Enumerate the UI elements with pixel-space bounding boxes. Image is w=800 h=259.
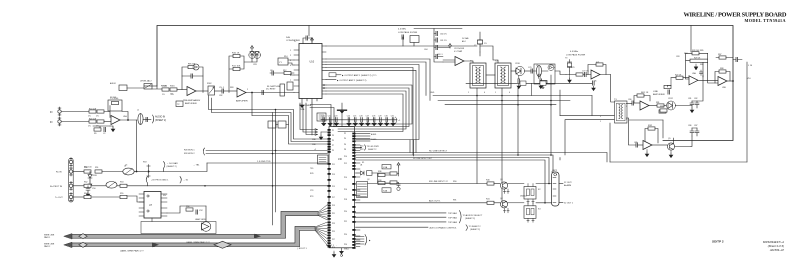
wire C4 taps — [182, 75, 203, 77]
wire bundle 3 — [326, 91, 406, 129]
bus2 left tip — [64, 242, 72, 247]
svg-text:(SHEET 2): (SHEET 2) — [167, 166, 177, 168]
wire x663 from T3 — [629, 119, 663, 121]
capacitor C39 vertical — [695, 101, 699, 108]
resistor R52 — [84, 184, 91, 187]
node dot at output — [127, 119, 129, 121]
capacitor C23 — [334, 115, 338, 126]
capacitor C62 — [436, 45, 438, 49]
svg-text:C2: C2 — [103, 133, 105, 135]
wire varactor to C33 — [525, 70, 531, 72]
circle around CR1 — [249, 52, 256, 59]
diode CR30 — [361, 171, 365, 175]
vertical drop x551 — [550, 75, 552, 155]
svg-text:PAIR 2: PAIR 2 — [44, 245, 51, 248]
svg-text:R81: R81 — [656, 102, 659, 104]
wire into K2 top — [528, 184, 533, 187]
resistor R40 — [487, 182, 494, 185]
wire bundle from IC to bus corner 1 — [326, 85, 412, 124]
feedback box R30 — [719, 70, 726, 73]
wire R26 stub — [661, 110, 663, 112]
J3 right pin blocks — [352, 133, 355, 249]
bracket TX LED — [365, 145, 366, 150]
bracket cap row end — [396, 117, 397, 124]
bracket +5V PROG right — [180, 177, 181, 184]
op-amp U5 — [591, 70, 600, 79]
svg-text:4: 4 — [290, 65, 291, 67]
capacitor C33 — [531, 69, 533, 73]
bus2 splice diamond A — [79, 242, 87, 247]
wire U7B out junction to border — [727, 80, 733, 82]
arrowheads into J3 — [315, 129, 318, 136]
inductor L1 — [138, 114, 143, 125]
wire: IC pin to 4.5MHz filter top run — [326, 45, 477, 47]
svg-text:P5: P5 — [332, 140, 334, 142]
transistor Q3 — [500, 182, 507, 189]
svg-text:NO LINE DETECT: NO LINE DETECT — [429, 151, 448, 153]
capacitor C5 — [222, 89, 224, 93]
wire R51 to L3 — [102, 171, 124, 173]
wire drop into connector left — [310, 105, 331, 127]
capacitor C29 — [378, 115, 382, 126]
svg-text:P7: P7 — [332, 145, 334, 147]
svg-text:.1: .1 — [385, 117, 387, 119]
wire border to power cluster — [690, 26, 692, 53]
wire to lower section vertical — [136, 120, 138, 172]
wire C35 — [518, 76, 520, 79]
wire IC bottom to connector — [311, 103, 313, 135]
wire T3 bottom drop to y162 — [609, 123, 611, 162]
wire row y153.5 — [206, 153, 328, 155]
labels on J3 right rows — [360, 146, 433, 167]
IC right pin stubs — [322, 46, 326, 94]
svg-text:TXP MA3: TXP MA3 — [448, 221, 458, 224]
circle SCR — [201, 222, 211, 232]
capacitor C43 vertical — [690, 128, 694, 136]
wire U12 out to SCR — [167, 206, 206, 213]
feedback loop wires — [686, 53, 708, 80]
svg-text:P21: P21 — [332, 213, 335, 215]
feedback resistor R29 wide — [690, 59, 708, 62]
resistor R5 — [97, 120, 104, 123]
svg-text:2: 2 — [290, 55, 291, 57]
wire gnd stub J3 — [321, 132, 328, 135]
svg-text:J4/P2: J4/P2 — [552, 170, 558, 172]
wire R5 to op-amp — [104, 121, 111, 123]
svg-text:L1: L1 — [137, 110, 139, 112]
wire bundle line 2 — [212, 98, 328, 142]
svg-text:4: 4 — [484, 92, 485, 94]
ground symbol bottom — [340, 252, 344, 255]
junction dot bundle — [275, 109, 277, 111]
capacitor C63 — [436, 54, 438, 58]
gnd parts below input — [664, 85, 671, 88]
rail wire y104.7 — [445, 104, 556, 106]
value labels IC left — [270, 41, 305, 111]
svg-text:LOW PASS FILTER: LOW PASS FILTER — [398, 31, 418, 34]
svg-text:R2 20K: R2 20K — [110, 97, 117, 99]
long secondary wire y83.3 — [466, 82, 592, 84]
wire feedback return horizontal y162 — [610, 161, 747, 163]
wire U1B out — [196, 90, 208, 92]
J3 inner pin labels column2 — [344, 133, 347, 246]
value labels T3 area — [600, 106, 627, 123]
svg-text:R52: R52 — [84, 182, 87, 184]
input source box left of attenuator — [119, 85, 127, 91]
svg-text:4.5 MHz: 4.5 MHz — [570, 51, 578, 53]
svg-text:R61 1K: R61 1K — [641, 92, 649, 94]
wire R55 to opto — [127, 196, 144, 202]
wire to vertical riser x703 — [692, 60, 703, 102]
wire C37 to U6 — [634, 102, 640, 104]
wire cap row rail — [321, 119, 397, 121]
value labels mid RF chain — [424, 43, 599, 94]
ground below bias — [111, 127, 115, 132]
svg-text:DC BAL: DC BAL — [462, 37, 469, 40]
svg-text:R36: R36 — [378, 171, 381, 173]
svg-text:AUX OUT 1: AUX OUT 1 — [429, 200, 441, 203]
wire bundle 4 — [326, 94, 403, 132]
svg-text:P16: P16 — [344, 189, 347, 191]
IC left pin stubs — [294, 50, 299, 93]
svg-text:AGND: AGND — [371, 133, 377, 136]
wire U5 out down to T3 — [600, 75, 615, 103]
svg-text:R89: R89 — [660, 106, 663, 108]
svg-text:K2: K2 — [538, 189, 541, 191]
wire rx input2 row y184 — [368, 183, 488, 185]
svg-text:ALARM: ALARM — [564, 184, 571, 187]
dc restore bar — [280, 84, 285, 96]
node dot y170 — [136, 171, 138, 173]
svg-text:ADJ: ADJ — [462, 40, 466, 43]
svg-text:1: 1 — [495, 92, 496, 94]
svg-text:P12: P12 — [344, 163, 347, 165]
wire through trap — [555, 71, 566, 75]
feedback resistor R23 — [596, 63, 603, 66]
svg-text:P13: P13 — [332, 174, 335, 176]
svg-text:R55: R55 — [120, 193, 123, 195]
svg-text:1: 1 — [600, 121, 601, 123]
rail wire y100.5 — [438, 100, 570, 102]
vertical feed x434 — [434, 29, 443, 63]
circled inductor row2 — [106, 182, 117, 189]
wire IC top power drop from border — [308, 26, 310, 37]
circled diode CR4 — [548, 65, 554, 71]
varactor circle — [515, 66, 524, 75]
bus1 splice diamond A — [79, 234, 87, 239]
svg-text:Y3: Y3 — [565, 58, 567, 60]
inductor L3 horizontal — [123, 168, 134, 175]
ground C36 — [539, 84, 543, 89]
svg-text:P14: P14 — [344, 177, 347, 179]
bypass caps under chain C35 — [518, 79, 520, 83]
wire bundle2 line 1 — [326, 65, 419, 140]
feedback resistor R10 — [233, 54, 240, 57]
wire row2 to J4 — [536, 202, 552, 204]
svg-text:R11 10K: R11 10K — [232, 66, 241, 68]
wire op-amp output — [120, 119, 137, 121]
svg-text:C300: C300 — [162, 86, 167, 88]
wire row y185.8 long — [127, 185, 328, 187]
wire stub row y212.9 — [356, 212, 447, 214]
svg-text:P1: P1 — [332, 130, 334, 132]
svg-text:P2: P2 — [344, 133, 346, 135]
svg-text:AMPLIFIER: AMPLIFIER — [236, 100, 248, 103]
svg-text:TXD: TXD — [310, 168, 314, 170]
svg-text:4.5 MHz: 4.5 MHz — [398, 29, 406, 31]
wire row3 y196 — [73, 196, 84, 198]
J3 left pin blocks — [328, 129, 331, 248]
capacitor C22 — [328, 115, 332, 126]
svg-text:1%: 1% — [88, 126, 91, 128]
feedback wiring U2 — [229, 56, 252, 93]
ground tap vertical — [341, 103, 343, 127]
wire U8 gnd stub — [646, 150, 648, 153]
capacitor C3 — [146, 117, 148, 121]
capacitor C25 — [353, 115, 357, 126]
op-amp U8 — [643, 141, 652, 150]
svg-text:LEVEL ADJ: LEVEL ADJ — [140, 80, 151, 83]
capacitor C24 — [347, 115, 351, 126]
op-amp U7B — [718, 77, 727, 86]
bus1 left tip — [64, 234, 72, 239]
svg-text:5: 5 — [600, 116, 601, 118]
bypass cap C36 — [540, 79, 542, 83]
feedback wire U5 — [588, 65, 606, 75]
svg-text:LINE: LINE — [653, 91, 658, 93]
junction dots rows 150 — [275, 150, 277, 152]
op-amp U7A — [689, 76, 698, 85]
capacitor C30 — [385, 115, 389, 126]
wire row y157.5 — [356, 158, 550, 184]
circled diode on feedback box — [193, 64, 199, 70]
switch cluster stub — [356, 172, 361, 174]
connector bar left — [69, 159, 74, 203]
part on secondary 2 — [540, 81, 546, 85]
tap cap y47.5 — [434, 47, 450, 50]
wire bundle 2 — [326, 88, 409, 127]
wire L2 to CR4 — [533, 70, 548, 72]
svg-text:R86: R86 — [700, 64, 703, 66]
svg-text:TXP MA2: TXP MA2 — [448, 216, 458, 219]
svg-text:TXP MA1: TXP MA1 — [448, 212, 458, 215]
svg-text:C5 .1: C5 .1 — [219, 87, 225, 89]
wire input to R27 — [671, 76, 703, 78]
svg-text:1%: 1% — [88, 116, 91, 118]
wire source box to attenuator — [127, 87, 144, 89]
svg-text:AMPLIFIER: AMPLIFIER — [653, 93, 665, 96]
svg-text:K1A: K1A — [383, 166, 388, 169]
capacitor C55 vertical — [397, 183, 400, 188]
svg-text:.1: .1 — [372, 117, 374, 119]
svg-text:C7: C7 — [294, 41, 296, 43]
wire U6 out — [649, 105, 657, 107]
wire R25 to R26 — [664, 105, 666, 107]
value labels bottom left — [84, 162, 189, 209]
power arrow cluster — [397, 163, 400, 167]
wire R40 to Q3 — [494, 183, 500, 185]
wire row y150.5 — [206, 150, 328, 152]
capacitor C8 — [272, 71, 274, 75]
small box above connector — [317, 113, 326, 121]
resistor R8 — [170, 88, 177, 91]
crystal Y2 vertical — [478, 32, 483, 52]
gnd crystal — [568, 78, 572, 83]
svg-text:A01599~LP: A01599~LP — [769, 248, 784, 252]
svg-text:1%: 1% — [171, 94, 174, 96]
connector pin J2-2 — [58, 117, 61, 126]
capacitor C7 top bypass — [306, 36, 308, 40]
wire no line detect y152 — [356, 153, 608, 163]
bracket +5V PROG left — [146, 177, 147, 186]
svg-text:(SHEET 2): (SHEET 2) — [470, 229, 480, 231]
value labels upper-left chain — [162, 64, 257, 97]
svg-text:R57: R57 — [163, 195, 166, 197]
op-amp U2 amplifier — [237, 88, 246, 97]
wire Y1 to IC — [288, 60, 294, 65]
capacitor C34 below U5 — [593, 81, 595, 85]
wire C8 R12 — [270, 73, 294, 75]
svg-text:GND: GND — [430, 92, 435, 94]
IC bottom drop 3 — [306, 103, 315, 135]
wire U2 output drop to bundle — [251, 93, 253, 116]
vertical x663 tie — [662, 120, 664, 138]
wire to op-amp U1B — [177, 89, 187, 91]
transformer T2 — [495, 63, 511, 88]
opto isolator U12 — [144, 192, 161, 219]
dot stub — [360, 147, 362, 149]
resistor R22 — [576, 73, 583, 76]
svg-text:52 OUT/: 52 OUT/ — [564, 182, 572, 184]
svg-text:IN: IN — [50, 111, 53, 114]
svg-text:ROUT 1 →: ROUT 1 → — [326, 245, 337, 247]
svg-text:PWA: PWA — [300, 108, 305, 111]
wire input row 1 — [62, 111, 90, 113]
svg-text:R9: R9 — [94, 133, 96, 135]
feedback box R32 — [648, 127, 655, 130]
capacitor C30 — [402, 35, 404, 39]
svg-text:SD/TP 2: SD/TP 2 — [712, 239, 724, 243]
svg-text:CR5: CR5 — [253, 64, 257, 66]
svg-text:L3: L3 — [124, 166, 126, 168]
svg-text:PRE-EMPHASIS/: PRE-EMPHASIS/ — [183, 99, 201, 102]
SCR enclosure box — [141, 222, 216, 234]
label box K1B — [382, 188, 391, 192]
vertical drop x560 — [559, 90, 561, 116]
wire T3 lower out — [626, 118, 636, 145]
filter box FL1 — [410, 36, 419, 43]
op-amp U4 — [455, 57, 464, 66]
svg-text:R29 1K: R29 1K — [694, 57, 701, 59]
capacitor C42 — [636, 143, 638, 147]
diode inside circle — [195, 66, 198, 68]
bracket rows 150 — [203, 148, 204, 155]
pin block rows — [358, 184, 367, 197]
svg-text:(Sheet 3 of 6): (Sheet 3 of 6) — [768, 244, 784, 248]
bracket J3 exits — [365, 235, 367, 246]
svg-text:RX LINE INPUT #2: RX LINE INPUT #2 — [429, 181, 448, 183]
wire pwr vertical — [398, 167, 400, 176]
bracket audio out — [153, 115, 154, 123]
wire from border into attenuator — [144, 85, 157, 87]
varactor CR3 — [516, 68, 521, 74]
bracket TXP group — [460, 211, 462, 223]
bus2 fan-in lines — [315, 222, 328, 246]
resistor R12 — [284, 71, 291, 74]
capacitor C44 vertical — [695, 128, 699, 136]
wire bundle line 3 — [252, 116, 328, 145]
capacitor C21 — [322, 115, 326, 126]
svg-text:T3: T3 — [614, 99, 617, 101]
wire into K3 top — [528, 203, 533, 206]
input resistor R27 — [676, 76, 683, 79]
svg-text:RTS: RTS — [310, 196, 314, 198]
resistor R37 — [390, 172, 397, 175]
wire U4 out to T1 — [464, 61, 473, 63]
svg-text:R1 10K: R1 10K — [89, 109, 97, 111]
tap cap y40 — [434, 39, 436, 41]
relay K2 below wire — [524, 187, 536, 200]
capacitor C52 near SCR — [196, 210, 198, 214]
svg-text:60PS/094EST/~A: 60PS/094EST/~A — [763, 240, 784, 244]
svg-text:LB: LB — [360, 165, 363, 167]
transistor Q5 — [667, 143, 674, 150]
svg-text:D/A: D/A — [286, 36, 290, 39]
svg-text:4.5 TRAP: 4.5 TRAP — [454, 50, 463, 53]
svg-text:R56: R56 — [186, 206, 189, 208]
svg-text:LAMP GRN: LAMP GRN — [195, 218, 206, 221]
J3 bottom ground circle — [341, 248, 343, 252]
bus2 splice diamond B large — [214, 241, 231, 248]
label box K1A — [382, 165, 391, 169]
wire C42 to U8 — [638, 144, 643, 146]
K3 bottom stubs — [527, 218, 534, 222]
wire y171.5 to riser — [149, 163, 208, 172]
capacitor C31 — [391, 115, 395, 126]
svg-text:R41: R41 — [486, 199, 491, 201]
svg-text:(SHEET 2): (SHEET 2) — [155, 120, 166, 122]
svg-text:.1: .1 — [366, 117, 368, 119]
resistor R41 — [487, 201, 494, 204]
wire box to col — [319, 158, 326, 162]
vertical 531.5 — [531, 83, 533, 95]
svg-text:R50: R50 — [84, 167, 87, 169]
junction dot elbow 183.5 — [548, 183, 550, 185]
capacitor C28 — [372, 115, 376, 126]
wire R52 to R53 — [91, 185, 106, 187]
ground C50 — [86, 192, 90, 197]
feedback wire U7B — [715, 72, 730, 84]
svg-text:▶ OUTPUT AMP 2 (SHEET 2): ▶ OUTPUT AMP 2 (SHEET 2) — [337, 79, 367, 82]
svg-text:AUDIO: AUDIO — [110, 82, 117, 85]
U12 left stubs — [139, 194, 144, 216]
connector pin P2 rx prot — [69, 181, 72, 190]
svg-text:R12: R12 — [283, 70, 286, 72]
svg-text:NO LINE DETECT RET: NO LINE DETECT RET — [413, 158, 433, 160]
wire gnd parts — [668, 78, 672, 87]
svg-text:C82: C82 — [694, 98, 697, 100]
connector pin J2-1 — [58, 107, 61, 116]
IC bottom drop 1 — [300, 103, 315, 130]
svg-text:SHLD: SHLD — [344, 249, 350, 251]
wire bundle2 line 3 — [326, 68, 413, 156]
ground C35 — [517, 84, 521, 89]
wire aux row y207 — [356, 202, 488, 204]
ground J3 left — [319, 135, 323, 140]
svg-text:P27: P27 — [332, 239, 335, 241]
vertical drop x518 — [517, 88, 519, 155]
wire drop to bus corner 2 — [272, 113, 274, 226]
